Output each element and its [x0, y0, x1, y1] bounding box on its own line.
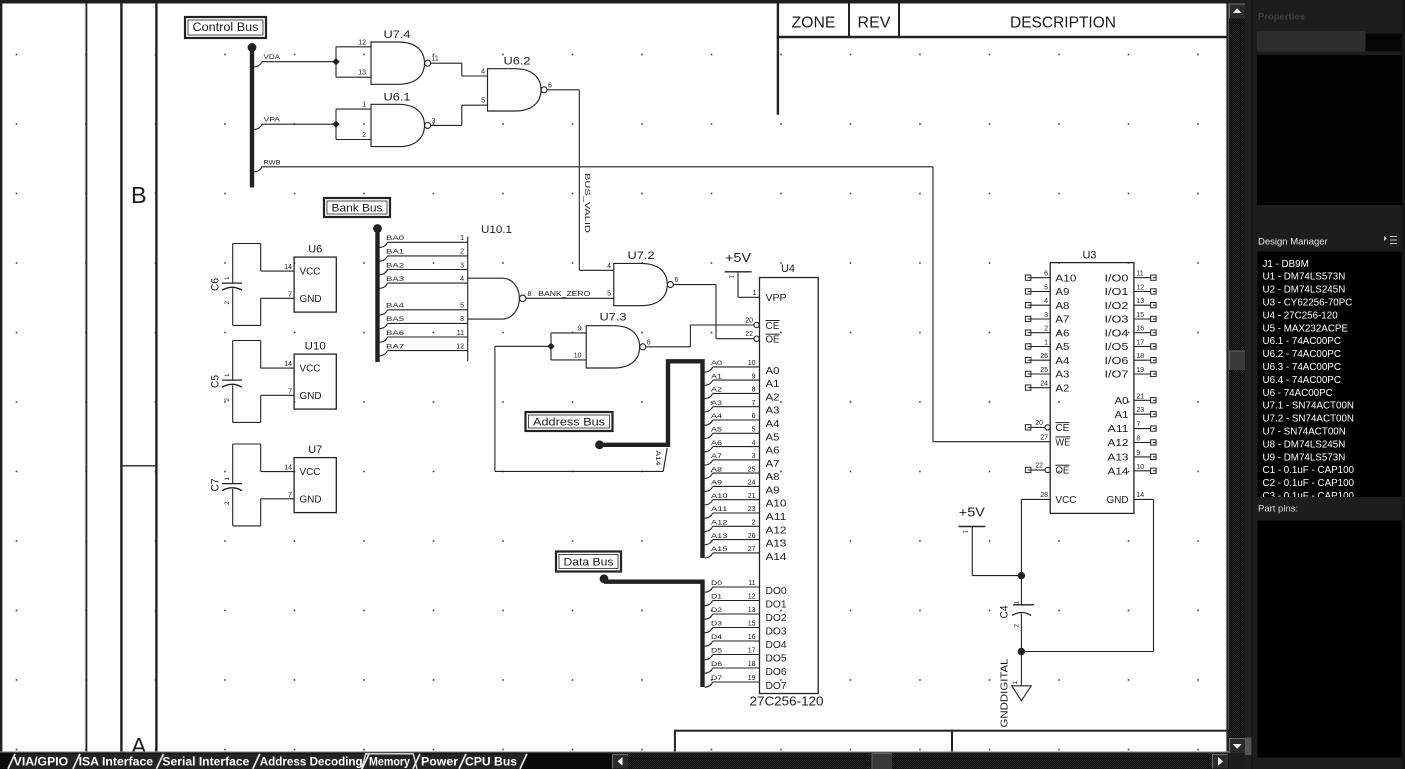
vertical scrollbar up button	[1230, 4, 1246, 19]
svg-text:DESCRIPTION: DESCRIPTION	[1010, 15, 1116, 32]
Control Bus junction dot	[248, 43, 257, 52]
svg-text:11: 11	[1136, 271, 1143, 278]
ground symbol GNDDIGITAL	[1000, 652, 1032, 728]
svg-text:Memory: Memory	[369, 754, 410, 768]
U3 pin 2 A6	[1025, 326, 1069, 340]
wire +5V to U3 VCC	[1021, 499, 1050, 575]
svg-text:VCC: VCC	[300, 467, 321, 478]
sheet border vertical line 4	[155, 4, 157, 753]
U3 pin 17 I/O5	[1105, 340, 1157, 354]
svg-text:27: 27	[748, 546, 756, 553]
svg-text:2: 2	[1014, 624, 1021, 628]
svg-text:4: 4	[481, 68, 485, 75]
U3 pin 7 A11	[1108, 422, 1157, 436]
svg-text:A6: A6	[766, 446, 780, 457]
svg-text:A1: A1	[711, 373, 722, 380]
svg-text:24: 24	[1040, 381, 1048, 388]
svg-text:A4: A4	[1055, 356, 1069, 367]
power block U6	[294, 244, 336, 313]
svg-text:4: 4	[607, 263, 611, 270]
svg-text:C6: C6	[210, 278, 222, 291]
svg-text:19: 19	[1136, 367, 1144, 374]
Data Bus junction dot	[600, 574, 609, 583]
tab background	[414, 754, 466, 769]
wire to U6.1 inputs	[336, 109, 371, 139]
wire U7.2 out to U4 OE	[716, 285, 754, 339]
svg-text:U10.1: U10.1	[481, 224, 512, 236]
svg-text:U1 - DM74LS573N: U1 - DM74LS573N	[1263, 272, 1346, 283]
Data Bus label	[556, 552, 621, 572]
svg-text:28: 28	[1040, 492, 1048, 499]
wire D2 to U4	[705, 607, 760, 619]
svg-text:REV: REV	[858, 15, 891, 32]
svg-text:1: 1	[1014, 600, 1021, 604]
svg-text:17: 17	[748, 648, 756, 655]
svg-text:U6.1 - 74AC00PC: U6.1 - 74AC00PC	[1263, 336, 1341, 347]
svg-text:18: 18	[1136, 353, 1144, 360]
power block U7	[294, 444, 336, 513]
U3 pin 26 A4	[1025, 353, 1069, 367]
svg-text:ZONE: ZONE	[792, 15, 836, 32]
wire A10 to U4	[705, 493, 760, 505]
svg-text:1: 1	[460, 235, 464, 242]
svg-text:ISA Interface: ISA Interface	[79, 754, 154, 768]
svg-text:A12: A12	[711, 520, 728, 527]
svg-text:7: 7	[288, 291, 292, 298]
svg-text:A7: A7	[766, 459, 780, 470]
svg-text:A1: A1	[1115, 410, 1129, 421]
svg-text:5: 5	[460, 303, 464, 310]
horizontal scrollbar right button	[1213, 755, 1229, 769]
svg-text:1: 1	[728, 275, 735, 279]
svg-text:A14: A14	[766, 552, 788, 563]
svg-text:3: 3	[460, 262, 464, 269]
svg-text:I/O0: I/O0	[1105, 273, 1130, 284]
wire D6 to U4	[705, 661, 760, 673]
svg-text:9: 9	[1136, 450, 1140, 457]
wire D0 to U4	[705, 580, 760, 592]
svg-text:6: 6	[548, 82, 552, 89]
svg-text:A11: A11	[711, 506, 728, 513]
svg-text:VIA/GPIO: VIA/GPIO	[14, 754, 68, 768]
svg-text:BUS_VALID: BUS_VALID	[583, 173, 590, 233]
svg-text:14: 14	[1136, 492, 1144, 499]
svg-text:A7: A7	[711, 453, 722, 460]
svg-text:A6: A6	[1055, 328, 1069, 339]
capacitor C5	[210, 341, 243, 423]
svg-text:WE: WE	[1055, 437, 1070, 448]
svg-text:DO3: DO3	[766, 627, 787, 638]
Address Bus label	[526, 412, 613, 431]
wire D4 to U4	[705, 634, 760, 646]
wire A1 to U4	[705, 373, 760, 385]
svg-text:U6 - 74AC00PC: U6 - 74AC00PC	[1263, 388, 1333, 399]
svg-text:5: 5	[1044, 285, 1048, 292]
svg-text:14: 14	[284, 465, 292, 472]
tab separator slash	[157, 754, 164, 769]
svg-text:A9: A9	[766, 485, 780, 496]
svg-text:U2 - DM74LS245N: U2 - DM74LS245N	[1263, 285, 1346, 296]
svg-text:CE: CE	[766, 321, 780, 332]
junction VPA split	[332, 121, 339, 128]
svg-text:GND: GND	[300, 294, 322, 305]
wire BA0	[380, 235, 468, 248]
svg-text:2: 2	[224, 398, 231, 402]
svg-text:15: 15	[1136, 312, 1144, 319]
svg-text:8: 8	[752, 387, 756, 394]
svg-text:A8: A8	[1055, 301, 1069, 312]
vertical scrollbar down button	[1230, 739, 1246, 754]
svg-text:I/O1: I/O1	[1105, 287, 1130, 298]
tab background	[460, 754, 527, 769]
svg-text:11: 11	[457, 330, 464, 337]
svg-text:8: 8	[528, 291, 532, 298]
svg-text:D4: D4	[711, 634, 722, 641]
svg-text:U6.3 - 74AC00PC: U6.3 - 74AC00PC	[1263, 362, 1341, 373]
svg-text:26: 26	[1040, 353, 1048, 360]
svg-text:A4: A4	[711, 413, 722, 420]
wire BA6	[380, 330, 468, 343]
svg-text:U10: U10	[305, 341, 326, 353]
svg-text:U7.2: U7.2	[628, 250, 655, 262]
svg-text:7: 7	[1136, 422, 1140, 429]
horizontal scrollbar	[612, 753, 1229, 769]
wire U7.3 pin 8 output	[646, 339, 691, 347]
svg-text:I/O3: I/O3	[1105, 315, 1130, 326]
U3 pin 14 GND	[1107, 492, 1145, 506]
svg-text:BA5: BA5	[386, 316, 404, 323]
tab background	[74, 754, 164, 769]
U3 pin 18 I/O6	[1105, 353, 1157, 367]
tab background	[253, 754, 368, 769]
svg-text:U3 - CY62256-70PC: U3 - CY62256-70PC	[1263, 298, 1353, 309]
svg-text:GND: GND	[300, 495, 322, 506]
U3 pin 21 A0	[1115, 393, 1157, 407]
svg-text:2: 2	[224, 501, 231, 505]
svg-text:Address Bus: Address Bus	[533, 416, 606, 428]
svg-text:U7.1 - SN74ACT00N: U7.1 - SN74ACT00N	[1263, 401, 1354, 412]
svg-text:U4 - 27C256-120: U4 - 27C256-120	[1263, 310, 1339, 321]
svg-text:A2: A2	[711, 387, 722, 394]
nand gate U7.4	[371, 29, 431, 84]
svg-text:Control Bus: Control Bus	[193, 22, 259, 34]
tab separator slash	[73, 754, 80, 769]
U3 pin 10 A14	[1108, 464, 1157, 478]
svg-text:2: 2	[362, 132, 366, 139]
svg-text:11: 11	[748, 580, 755, 587]
U3 pin 24 A2	[1025, 381, 1069, 395]
svg-text:BANK_ZERO: BANK_ZERO	[538, 289, 590, 298]
svg-text:13: 13	[1136, 298, 1144, 305]
svg-text:U3: U3	[1083, 250, 1097, 262]
wire U7.4 out to U6.2 pin 4	[462, 63, 488, 76]
svg-text:DO4: DO4	[766, 640, 787, 651]
svg-text:1: 1	[224, 477, 231, 481]
svg-text:23: 23	[1136, 407, 1144, 414]
wire U6.2 pin 6 output	[547, 82, 579, 90]
wire A6 to U4	[705, 440, 760, 452]
U3 pin 23 A1	[1115, 407, 1157, 421]
svg-text:BA6: BA6	[386, 330, 404, 337]
svg-text:A3: A3	[1055, 370, 1069, 381]
svg-text:12: 12	[1136, 285, 1144, 292]
svg-text:A2: A2	[1055, 383, 1069, 394]
svg-text:U6.2: U6.2	[504, 56, 531, 68]
svg-text:6: 6	[752, 413, 756, 420]
+5V power symbol near C4	[959, 506, 1022, 576]
svg-text:14: 14	[284, 361, 292, 368]
bottom title block box 1	[675, 731, 952, 757]
svg-text:U5 - MAX232ACPE: U5 - MAX232ACPE	[1263, 323, 1349, 334]
svg-text:18: 18	[748, 661, 756, 668]
wire A4 to U4	[705, 413, 760, 425]
wire D3 to U4	[705, 621, 760, 633]
U10.1 input connector line	[467, 237, 469, 361]
svg-text:A12: A12	[1108, 438, 1130, 449]
svg-text:Design Manager: Design Manager	[1258, 237, 1328, 248]
svg-text:27: 27	[1040, 435, 1048, 442]
svg-text:BA3: BA3	[386, 276, 404, 283]
svg-text:1: 1	[753, 290, 757, 297]
svg-text:C7: C7	[210, 479, 222, 492]
svg-text:A5: A5	[1055, 342, 1069, 353]
svg-text:21: 21	[1136, 393, 1144, 400]
svg-text:I/O4: I/O4	[1105, 328, 1130, 339]
wire BUS_VALID to U7.2 pin 4	[579, 269, 614, 271]
svg-text:BA7: BA7	[386, 343, 404, 350]
svg-text:+5V: +5V	[725, 251, 752, 265]
svg-text:U8 - DM74LS245N: U8 - DM74LS245N	[1263, 439, 1346, 450]
svg-text:3: 3	[752, 453, 756, 460]
junction dot at C4 bottom	[1018, 648, 1025, 655]
Control Bus label	[185, 17, 266, 38]
svg-text:A13: A13	[1108, 453, 1130, 464]
svg-text:22: 22	[745, 331, 753, 338]
svg-text:Part pins:: Part pins:	[1258, 504, 1298, 515]
svg-text:20: 20	[745, 318, 753, 325]
svg-text:14: 14	[284, 264, 292, 271]
svg-text:5: 5	[607, 291, 611, 298]
U3 pin 22 OE	[1025, 463, 1069, 477]
svg-text:A13: A13	[766, 539, 788, 550]
svg-text:A6: A6	[711, 440, 722, 447]
bottom tab bar	[0, 753, 1229, 769]
U3 pin 11 I/O0	[1105, 271, 1157, 285]
capacitor C6	[210, 244, 243, 326]
Bank Bus junction dot	[373, 224, 382, 233]
svg-text:19: 19	[748, 675, 756, 682]
svg-text:7: 7	[288, 492, 292, 499]
U4 pin CE name	[766, 321, 780, 333]
tab separator slash	[253, 754, 260, 769]
svg-text:8: 8	[460, 316, 464, 323]
svg-text:A10: A10	[1055, 273, 1077, 284]
svg-text:12: 12	[456, 343, 464, 350]
svg-text:U6.4 - 74AC00PC: U6.4 - 74AC00PC	[1263, 375, 1341, 386]
svg-text:A11: A11	[1108, 424, 1130, 435]
svg-text:7: 7	[752, 400, 756, 407]
svg-text:VCC: VCC	[300, 267, 321, 278]
svg-text:A0: A0	[711, 360, 722, 367]
svg-text:10: 10	[1136, 464, 1144, 471]
sheet border vertical line 2	[85, 4, 87, 753]
U3 pin 15 I/O3	[1105, 312, 1157, 326]
svg-text:4: 4	[460, 276, 464, 283]
nand gate U6.1	[371, 91, 431, 146]
svg-text:BA2: BA2	[386, 262, 404, 269]
horizontal scrollbar thumb	[872, 754, 892, 769]
svg-text:I/O2: I/O2	[1105, 301, 1130, 312]
svg-text:12: 12	[358, 39, 366, 46]
svg-text:A0: A0	[766, 366, 780, 377]
wire BA1	[380, 249, 468, 262]
svg-text:A14: A14	[654, 451, 661, 466]
wire A15 to U4	[705, 546, 760, 558]
svg-text:A12: A12	[766, 525, 788, 536]
svg-text:A4: A4	[766, 419, 780, 430]
nand gate U6.2	[488, 56, 548, 111]
U3 pin 12 I/O1	[1105, 285, 1157, 299]
svg-text:1: 1	[224, 373, 231, 377]
svg-text:5: 5	[752, 427, 756, 434]
svg-text:OE: OE	[1055, 466, 1069, 477]
revision table border	[777, 4, 779, 115]
+5V power symbol at U4 VPP	[725, 251, 760, 297]
svg-text:16: 16	[1136, 326, 1144, 333]
wire D5 to U4	[705, 648, 760, 660]
wire A13 to U4	[705, 533, 760, 545]
junction dot at C4 top	[1018, 572, 1025, 579]
svg-text:D1: D1	[711, 594, 722, 601]
svg-text:VPA: VPA	[264, 117, 281, 124]
svg-text:11: 11	[432, 56, 439, 63]
svg-text:20: 20	[1035, 420, 1043, 427]
wire A12 to U4	[705, 520, 760, 532]
svg-text:2: 2	[224, 301, 231, 305]
nand gate U7.3	[586, 312, 646, 368]
wire RWB down to U3 WE	[933, 167, 1050, 442]
U3 pin 4 A8	[1025, 298, 1069, 312]
svg-text:A1: A1	[766, 379, 780, 390]
svg-text:VCC: VCC	[1055, 495, 1076, 506]
tab separator slash	[8, 754, 15, 769]
svg-text:VDA: VDA	[264, 54, 281, 61]
U3 pin 19 I/O7	[1105, 367, 1157, 381]
panel splitter grip	[1245, 738, 1252, 756]
zone divider tick	[121, 465, 156, 467]
svg-text:D0: D0	[711, 580, 722, 587]
svg-text:1: 1	[362, 102, 366, 109]
wire C7 to U7 power pins	[233, 444, 294, 526]
svg-text:I/O6: I/O6	[1105, 356, 1130, 367]
svg-text:D2: D2	[711, 607, 722, 614]
vertical scrollbar track	[1229, 4, 1245, 753]
U4 pin OE name	[766, 334, 780, 346]
wire BA7	[380, 343, 468, 356]
svg-text:10: 10	[748, 360, 756, 367]
tab background	[9, 754, 85, 769]
svg-text:3: 3	[1044, 312, 1048, 319]
tab background	[157, 754, 260, 769]
output bubble wire U7.4 pin 11	[431, 56, 462, 64]
svg-text:22: 22	[1035, 463, 1043, 470]
svg-text:1: 1	[1012, 681, 1019, 685]
svg-text:A0: A0	[1115, 396, 1129, 407]
svg-text:U6.1: U6.1	[384, 91, 411, 103]
svg-text:DO1: DO1	[766, 600, 787, 611]
svg-text:12: 12	[748, 594, 756, 601]
svg-text:13: 13	[358, 70, 366, 77]
U3 pin 3 A7	[1025, 312, 1069, 326]
bottom title block box 2	[952, 731, 1228, 757]
tab separator slash	[459, 754, 466, 769]
svg-text:BA1: BA1	[386, 249, 404, 256]
svg-text:21: 21	[748, 493, 756, 500]
U3 pin 28 VCC	[1040, 492, 1076, 506]
eprom U4 27C256-120	[750, 263, 824, 708]
svg-text:A9: A9	[1055, 287, 1069, 298]
svg-text:A2: A2	[766, 392, 780, 403]
properties input row	[1257, 31, 1366, 52]
svg-text:6: 6	[1044, 271, 1048, 278]
sheet border vertical line 3	[120, 4, 122, 753]
U3 pin 13 I/O2	[1105, 298, 1157, 312]
wire A0 to U4	[705, 360, 760, 372]
svg-text:Properties: Properties	[1258, 12, 1305, 23]
tab separator slash	[362, 754, 369, 769]
capacitor C7	[210, 444, 243, 526]
svg-text:6: 6	[675, 277, 679, 284]
svg-text:VPP: VPP	[766, 293, 787, 304]
svg-text:13: 13	[748, 607, 756, 614]
svg-text:A8: A8	[766, 472, 780, 483]
svg-text:23: 23	[748, 506, 756, 513]
svg-text:U7.4: U7.4	[384, 29, 411, 41]
capacitor C4	[999, 576, 1035, 652]
svg-text:DO5: DO5	[766, 654, 787, 665]
wire D1 to U4	[705, 594, 760, 606]
sram U3 CY62256	[1050, 250, 1134, 514]
wire A5 to U4	[705, 427, 760, 439]
svg-text:C4: C4	[999, 606, 1011, 619]
wire BA4	[380, 303, 468, 316]
wire A7 to U4	[705, 453, 760, 465]
wire VDA	[254, 54, 336, 67]
svg-text:Bank Bus: Bank Bus	[332, 202, 384, 214]
svg-text:U6.2 - 74AC00PC: U6.2 - 74AC00PC	[1263, 349, 1341, 360]
bottom bar separator	[0, 751, 1229, 753]
U4 CE bubble	[754, 322, 759, 327]
svg-text:2: 2	[1044, 326, 1048, 333]
svg-text:U4: U4	[781, 263, 795, 275]
svg-text:D3: D3	[711, 621, 722, 628]
U3 pin 27 WE	[1040, 435, 1071, 449]
svg-text:2: 2	[752, 520, 756, 527]
svg-text:Serial Interface: Serial Interface	[162, 754, 249, 768]
wire U6.1 out to U6.2 pin 5	[462, 105, 488, 125]
svg-text:C1 - 0.1uF - CAP100: C1 - 0.1uF - CAP100	[1263, 465, 1355, 476]
svg-text:9: 9	[578, 325, 582, 332]
svg-text:D7: D7	[711, 675, 722, 682]
nand gate U10.1 (8-input)	[468, 224, 526, 319]
right properties panel	[1245, 0, 1405, 769]
svg-text:10: 10	[574, 352, 582, 359]
U3 pin 9 A13	[1108, 450, 1157, 464]
tab separator slash	[413, 754, 420, 769]
svg-text:24: 24	[748, 480, 756, 487]
U3 pin 8 A12	[1108, 436, 1157, 450]
svg-text:8: 8	[1136, 436, 1140, 443]
